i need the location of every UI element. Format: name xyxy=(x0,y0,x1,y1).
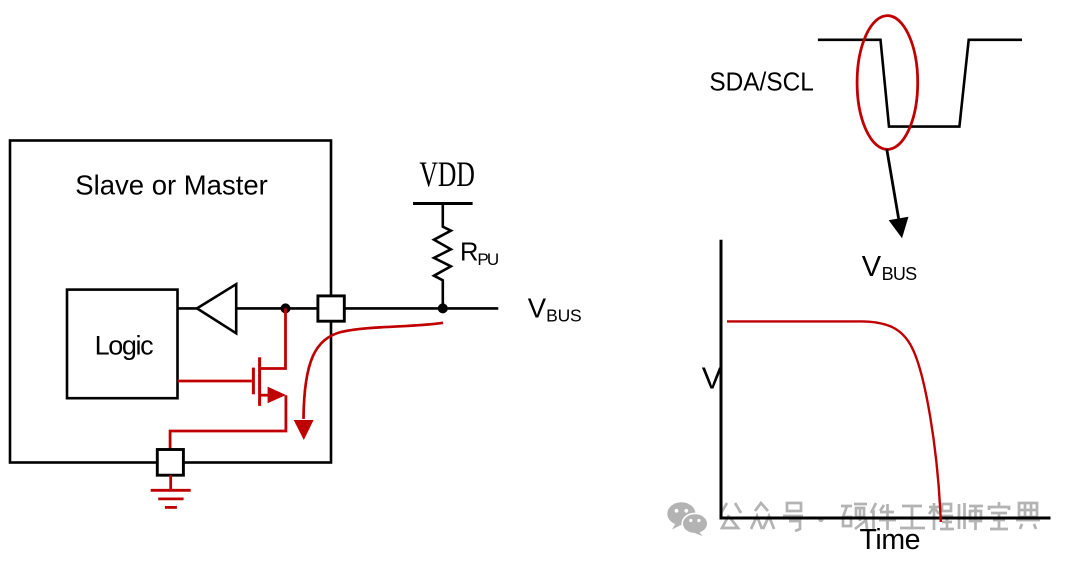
SDA/SCL waveform xyxy=(818,40,1022,127)
工 xyxy=(900,506,925,528)
svg-text:R: R xyxy=(460,239,478,267)
ground symbol (red) xyxy=(151,475,191,507)
师 xyxy=(959,503,983,530)
svg-text:PU: PU xyxy=(477,250,499,269)
硬 xyxy=(841,504,867,529)
wire logic to buffer xyxy=(178,307,199,310)
discharge current arrow (red curved) xyxy=(304,323,444,419)
channel bar xyxy=(258,357,261,406)
公 xyxy=(721,503,741,528)
程 xyxy=(929,503,954,530)
件 xyxy=(871,503,896,530)
号 xyxy=(783,503,803,531)
svg-text:V: V xyxy=(862,251,882,283)
VBUS decay curve (red) xyxy=(727,321,941,522)
resistor RPU xyxy=(434,204,451,309)
watermark WeChat icon xyxy=(667,502,708,536)
V/Time plot axes xyxy=(721,240,1051,518)
transistor Q1 (open-drain NMOS, red) xyxy=(170,308,286,449)
pin pad P2 (ground pin) xyxy=(157,450,183,476)
highlight ellipse (red) on falling edge xyxy=(857,16,918,150)
wire buffer to pin xyxy=(236,307,318,310)
junction node A xyxy=(281,303,291,313)
pin pad P1 (bus pin) xyxy=(318,296,344,321)
drain wire xyxy=(261,308,286,368)
watermark text (pseudo CJK strokes) xyxy=(721,502,1040,531)
separator dot xyxy=(818,517,823,522)
junction node B (RPU tap) xyxy=(438,303,448,313)
svg-text:Time: Time xyxy=(860,524,921,556)
VDD rail bar xyxy=(413,202,473,205)
svg-text:Logic: Logic xyxy=(95,331,154,361)
典 xyxy=(1016,503,1040,529)
宝 xyxy=(989,502,1009,529)
gate bar xyxy=(252,368,255,395)
source wire with arrow xyxy=(261,394,270,397)
logic block xyxy=(67,290,178,399)
device enclosure box U1 (Slave or Master) xyxy=(10,141,331,463)
gate wire xyxy=(178,380,252,383)
wire pin to VBUS xyxy=(344,307,498,310)
svg-text:Slave or Master: Slave or Master xyxy=(75,170,267,201)
svg-text:BUS: BUS xyxy=(882,264,918,284)
pointer arrow to VBUS plot xyxy=(887,149,899,218)
众 xyxy=(751,503,774,529)
svg-text:SDA/SCL: SDA/SCL xyxy=(709,66,813,96)
svg-text:V: V xyxy=(702,361,723,395)
svg-text:VDD: VDD xyxy=(419,154,475,194)
input buffer (triangle) xyxy=(197,284,236,333)
